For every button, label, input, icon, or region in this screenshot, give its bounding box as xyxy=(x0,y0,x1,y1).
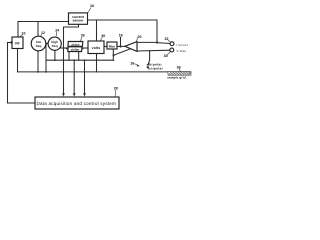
wire osc14 to phase shifter xyxy=(60,47,67,49)
svg-text:sample grid: sample grid xyxy=(167,76,186,80)
svg-text:Data acquisition and control s: Data acquisition and control system xyxy=(37,101,117,106)
svg-text:20: 20 xyxy=(138,35,142,39)
box volts xyxy=(88,41,104,54)
svg-text:unipolar: unipolar xyxy=(148,66,163,70)
svg-text:I tunnel: I tunnel xyxy=(176,43,188,47)
svg-text:32: 32 xyxy=(165,37,169,41)
sample hatched bar xyxy=(168,72,191,76)
svg-text:34: 34 xyxy=(164,54,168,58)
wire top bus left xyxy=(18,21,69,23)
wire volts box top feed xyxy=(96,20,98,41)
svg-text:freq: freq xyxy=(36,44,42,48)
wire control bus left xyxy=(8,43,36,104)
svg-text:36: 36 xyxy=(177,66,181,70)
wire osc12 bottom drop xyxy=(37,51,39,72)
wire current-sensor bottom L xyxy=(64,24,79,93)
box data acquisition xyxy=(35,97,119,109)
leader lines for numeral labels xyxy=(20,8,181,97)
wire amp upper output xyxy=(137,41,157,43)
arrow to tip xyxy=(147,63,150,66)
svg-text:sensor: sensor xyxy=(72,19,84,23)
wire phase shifter to volts box xyxy=(83,47,88,49)
wire diagonal filter junction to amp corner xyxy=(114,49,131,56)
box current sensor 16 xyxy=(69,13,88,24)
svg-text:28: 28 xyxy=(114,86,118,90)
wire node stub up xyxy=(120,38,122,47)
wire data-acq arrow mid xyxy=(73,60,75,93)
junction dots xyxy=(37,41,158,72)
terminal 32 xyxy=(170,42,174,46)
svg-text:volts: volts xyxy=(92,46,101,50)
wire volts box bottom drop xyxy=(96,54,98,72)
wire osc12 to osc14 xyxy=(46,43,48,45)
arrow into data acq right xyxy=(83,93,86,96)
wire data-acq arrow right xyxy=(84,60,86,93)
arrowheads xyxy=(11,41,150,97)
wire shifter drop right xyxy=(78,52,80,60)
svg-text:freq: freq xyxy=(52,44,58,48)
wire box10 bottom drop xyxy=(17,49,19,72)
svg-text:18: 18 xyxy=(119,33,123,37)
arrow tip label leader head xyxy=(137,64,140,66)
wire to terminal 32 xyxy=(157,42,170,45)
svg-text:RF: RF xyxy=(15,41,20,45)
phase shifter 33 upper xyxy=(68,42,83,47)
wire line A xyxy=(46,59,114,61)
svg-text:16: 16 xyxy=(90,4,94,8)
svg-text:shifter: shifter xyxy=(71,48,80,52)
svg-text:10: 10 xyxy=(22,31,26,35)
arrow into data acq mid xyxy=(73,93,76,96)
wire amp lower output xyxy=(137,49,170,52)
tip dot xyxy=(147,66,149,68)
wire junction drop to line A xyxy=(45,44,47,72)
arrow into data acq left xyxy=(62,93,65,96)
terminal 34 xyxy=(170,48,174,52)
text elements xyxy=(15,4,188,106)
box filter xyxy=(107,42,117,49)
svg-text:24: 24 xyxy=(55,28,59,32)
svg-text:12: 12 xyxy=(41,31,45,35)
wire volts box to filter box xyxy=(104,46,107,48)
wire box10 top drop xyxy=(17,22,19,38)
wire sample ground line xyxy=(18,71,191,73)
wire osc12 top drop xyxy=(37,22,39,37)
svg-text:V bias: V bias xyxy=(177,49,187,53)
wire tip arrow shaft xyxy=(148,61,149,65)
wire shifter drop left xyxy=(68,52,70,60)
phase shifter 33 lower xyxy=(68,47,82,52)
oscillator 12 xyxy=(31,36,46,51)
wire control arrow into box10 xyxy=(8,42,11,44)
wire osc14 bottom drop xyxy=(54,50,56,60)
svg-text:phase: phase xyxy=(71,42,80,46)
wire current-sensor output right xyxy=(87,20,157,43)
wire tip feed down xyxy=(149,51,151,61)
svg-text:16: 16 xyxy=(130,61,134,65)
svg-text:filter: filter xyxy=(109,45,117,49)
svg-text:33: 33 xyxy=(81,33,85,37)
oscillator 14 xyxy=(48,37,61,50)
arrow into box10 xyxy=(11,41,13,44)
box function generator 10 xyxy=(12,37,23,49)
wire amp apex to node xyxy=(117,45,125,47)
wire filter bottom drop xyxy=(112,49,114,60)
amplifier triangle 20 xyxy=(125,42,137,52)
svg-text:30: 30 xyxy=(101,34,105,38)
